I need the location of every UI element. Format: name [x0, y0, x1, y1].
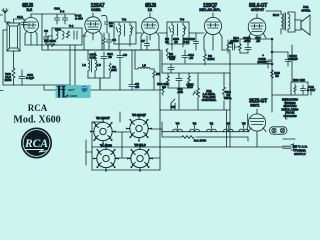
svg-text:V2: V2: [193, 122, 197, 126]
svg-text:MEG: MEG: [5, 78, 13, 82]
resistor R7: [153, 69, 161, 90]
labels R3 C9B row: [165, 37, 190, 44]
svg-text:SUPPLY: SUPPLY: [294, 152, 306, 156]
socket S2: [128, 113, 151, 140]
heater V1h: [206, 122, 216, 132]
avc bus wire: [42, 50, 160, 110]
labels C19 C17: [307, 85, 316, 95]
svg-text:V1: V1: [210, 122, 214, 126]
cap C10: [168, 57, 175, 73]
switch SW: [171, 99, 176, 110]
svg-text:OUTPUT: OUTPUT: [251, 8, 264, 12]
power plug: [291, 144, 297, 152]
svg-text:C2A: C2A: [55, 28, 62, 32]
svg-text:220K: 220K: [207, 57, 215, 61]
resistor R19: [157, 82, 170, 95]
socket S3: [95, 143, 118, 170]
resistor R13: [187, 73, 193, 89]
conv pin parts R3 C4: [103, 33, 116, 50]
resistor R5: [227, 40, 233, 53]
resistor R9: [204, 50, 216, 65]
socket S1: [92, 116, 115, 143]
svg-text:CONV.: CONV.: [91, 8, 101, 12]
volume control R11: [193, 73, 217, 103]
tube V3 6BJ6 IF: [141, 13, 159, 40]
oscillator box T-1: [52, 24, 82, 45]
cap C6: [117, 50, 127, 90]
svg-text:.05: .05: [135, 85, 140, 89]
wires det stage: [189, 33, 222, 50]
resistor R12: [223, 73, 232, 100]
svg-text:C10: C10: [169, 57, 175, 61]
svg-text:.05: .05: [189, 56, 194, 60]
power line wires: [230, 135, 295, 148]
svg-text:T-4: T-4: [69, 24, 74, 28]
resistor R-1 1000: [182, 136, 207, 143]
svg-text:0-1µF: 0-1µF: [26, 76, 34, 80]
IF transformer T-2: [114, 22, 136, 44]
svg-text:V4: V4: [176, 122, 180, 126]
svg-text:C13: C13: [189, 37, 195, 41]
svg-text:CHASSIS: CHASSIS: [283, 114, 296, 118]
cap C15: [228, 39, 239, 50]
heater V4h: [173, 122, 183, 132]
svg-text:L3: L3: [97, 63, 101, 67]
cap C7 under IF tube: [141, 36, 149, 50]
wire loop to bus: [13, 51, 15, 68]
cathode cap C16: [245, 44, 251, 53]
svg-text:7-4: 7-4: [60, 10, 65, 14]
output transformer T-6: [266, 11, 290, 34]
svg-text:56: 56: [108, 55, 112, 59]
socket area left wires: [86, 110, 160, 170]
cap C1A trimmer: [17, 15, 27, 28]
antenna ANT: [0, 9, 10, 91]
filter resistor R18: [271, 70, 280, 78]
svg-text:BLU: BLU: [273, 13, 279, 17]
osc coil L2 L3: [82, 52, 101, 78]
svg-text:56: 56: [174, 40, 178, 44]
resistor R4: [166, 49, 176, 59]
coil L5: [135, 50, 154, 69]
speaker SPKR: [288, 12, 310, 35]
capacitor C1B: [19, 70, 25, 85]
svg-text:V5: V5: [242, 122, 246, 126]
svg-text:L5: L5: [142, 64, 146, 68]
svg-text:RCA: RCA: [28, 103, 48, 113]
wires IF stage: [119, 33, 183, 50]
heater V5h: [239, 122, 249, 132]
svg-text:.05: .05: [256, 39, 261, 43]
heater return wire: [162, 131, 248, 141]
RCA logo: [21, 128, 52, 159]
svg-text:100MF: 100MF: [257, 60, 267, 64]
socket pin dots: [90, 116, 153, 172]
svg-text:C3: C3: [44, 29, 48, 33]
svg-text:T-2: T-2: [122, 18, 127, 22]
resistor R1: [44, 39, 57, 47]
B+ rail: [240, 39, 292, 112]
svg-text:C6: C6: [123, 53, 127, 57]
svg-text:MEG.: MEG.: [224, 96, 232, 100]
cap C9A: [101, 52, 114, 63]
svg-text:100MF: 100MF: [288, 57, 298, 61]
tube V2 12SA7 converter: [84, 13, 102, 40]
svg-text:RCA: RCA: [24, 138, 48, 150]
wires conv stage: [48, 35, 102, 90]
watermark box: [56, 85, 91, 98]
tube V1 6BJ6 RF: [23, 14, 38, 36]
paper background: [0, 0, 320, 177]
svg-text:C7: C7: [141, 39, 145, 43]
heater V3h: [223, 122, 233, 132]
svg-text:R19 68K: R19 68K: [157, 82, 170, 86]
svg-text:SPKR.: SPKR.: [301, 9, 310, 13]
socket diagram wires: [92, 112, 230, 170]
svg-text:R.F.: R.F.: [27, 8, 33, 12]
svg-text:150K: 150K: [186, 83, 194, 87]
svg-text:.05M: .05M: [244, 39, 251, 43]
loop antenna L1: [7, 19, 24, 51]
resistor R16: [12, 68, 15, 85]
svg-text:22K: 22K: [111, 68, 117, 72]
svg-text:L2: L2: [82, 63, 86, 67]
trimmer cap C2B: [55, 14, 60, 24]
heater V2h: [190, 122, 200, 132]
svg-text:CONTROL: CONTROL: [202, 98, 217, 102]
svg-text:T-3: T-3: [180, 18, 185, 22]
heater string wire: [162, 110, 249, 147]
wires osc section: [75, 50, 160, 90]
output sub-circuit R19 C19: [272, 75, 308, 95]
svg-text:Mod. X600: Mod. X600: [13, 114, 60, 125]
resistor R6: [162, 73, 169, 89]
svg-text:1-400: 1-400: [75, 17, 83, 21]
socket S4: [129, 143, 152, 170]
tube V6 35Z5-GT rectifier: [248, 109, 266, 135]
svg-text:150: 150: [233, 39, 238, 43]
plate supply wire: [222, 38, 248, 147]
trimmer cap C2C: [63, 14, 68, 24]
svg-text:& C17: & C17: [307, 88, 316, 92]
svg-text:C4: C4: [112, 38, 116, 42]
svg-text:l?.com: l?.com: [66, 94, 77, 98]
svg-text:.002: .002: [177, 90, 183, 94]
legend bracket: [282, 98, 300, 120]
svg-text:56: 56: [275, 74, 279, 78]
audio coupling wire: [162, 50, 272, 64]
wires RF stage: [25, 14, 45, 50]
pilot lamps: [270, 127, 288, 134]
volume section wires: [160, 73, 230, 110]
svg-text:V3: V3: [226, 122, 230, 126]
cap C13: [189, 33, 198, 50]
cathode resistor R14: [239, 39, 248, 53]
cap C14: [182, 50, 194, 63]
filter cap C18C electrolytic: [271, 51, 298, 66]
grid cap C5: [102, 15, 114, 33]
resistor R2: [109, 63, 118, 73]
cap C11: [176, 73, 183, 94]
volume section top wire: [162, 64, 230, 73]
IF transformer T-3: [167, 22, 189, 44]
bottom bus left: [3, 84, 70, 86]
svg-text:R19 C19: R19 C19: [293, 78, 305, 82]
svg-text:56: 56: [109, 24, 113, 28]
filter cap C18B electrolytic: [257, 53, 272, 68]
svg-text:COIL: COIL: [89, 56, 96, 60]
svg-text:om?: om?: [68, 88, 75, 92]
cap C3: [44, 29, 49, 43]
cathode row labels: [233, 36, 261, 43]
svg-text:I.F.: I.F.: [148, 8, 152, 12]
svg-text:R-1 1000: R-1 1000: [194, 139, 207, 143]
tube V5 50L6GT: [248, 14, 266, 42]
svg-text:DET.-AF.-AVC.: DET.-AF.-AVC.: [199, 8, 220, 12]
svg-text:RECT.: RECT.: [250, 104, 259, 108]
wire left-edge down: [3, 30, 7, 85]
tube V4 12SQ7: [204, 13, 222, 40]
cap C8: [129, 82, 139, 90]
svg-text:R1 470K: R1 470K: [44, 39, 57, 43]
svg-text:C1A: C1A: [17, 15, 24, 19]
